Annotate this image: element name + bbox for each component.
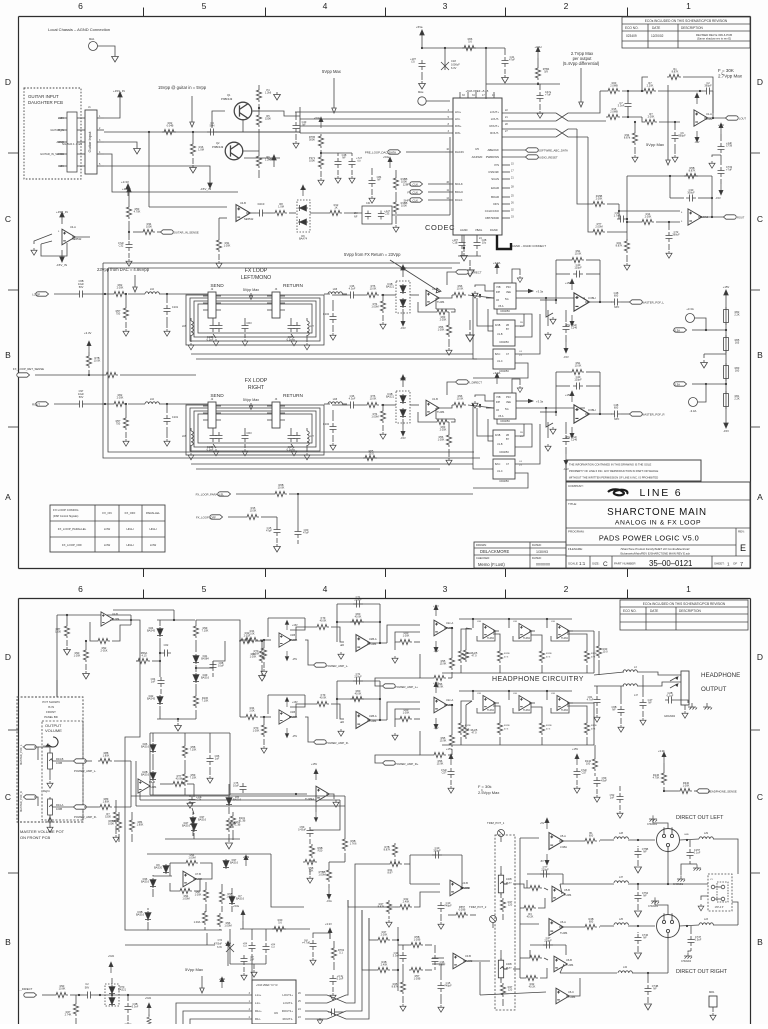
svg-text:U7-B: U7-B <box>195 872 201 876</box>
svg-text:+3.3a: +3.3a <box>536 400 544 404</box>
svg-text:C33: C33 <box>385 212 390 216</box>
svg-text:150K: 150K <box>265 117 271 121</box>
svg-text:+5V9: +5V9 <box>243 855 250 859</box>
svg-text:CD4053: CD4053 <box>499 479 509 483</box>
svg-text:1.00M: 1.00M <box>226 895 233 899</box>
svg-text:BY: BY <box>506 438 510 441</box>
svg-text:47pF: 47pF <box>266 529 272 533</box>
svg-text:2B: 2B <box>506 324 509 327</box>
svg-text:TL084: TL084 <box>437 410 445 414</box>
svg-text:8.87K: 8.87K <box>392 985 399 989</box>
svg-text:AGND – DGND CONNECT: AGND – DGND CONNECT <box>512 244 546 248</box>
svg-text:L10: L10 <box>150 288 155 291</box>
svg-text:Y0B: Y0B <box>496 396 501 399</box>
svg-text:+4.7uF: +4.7uF <box>302 941 311 945</box>
svg-text:PRE_LOOP_DAC_DATA: PRE_LOOP_DAC_DATA <box>365 151 396 155</box>
svg-text:+5VA: +5VA <box>108 954 114 958</box>
svg-text:40.0K: 40.0K <box>355 615 362 619</box>
svg-text:DIRECT OUT RIGHT: DIRECT OUT RIGHT <box>676 969 728 975</box>
svg-text:220uF: 220uF <box>354 675 362 679</box>
svg-text:7.10K: 7.10K <box>190 748 197 752</box>
svg-text:5/9: 5/9 <box>544 70 548 74</box>
svg-text:FX LOOP: FX LOOP <box>245 378 268 384</box>
svg-text:2: 2 <box>564 584 569 594</box>
svg-text:DESCRIPTION: DESCRIPTION <box>679 609 701 613</box>
svg-text:CHECKED:: CHECKED: <box>476 556 490 560</box>
svg-text:GUITAR INPUT: GUITAR INPUT <box>28 94 59 99</box>
svg-text:U5: U5 <box>475 147 479 151</box>
svg-text:LINE 6: LINE 6 <box>640 487 683 499</box>
svg-text:1.00M: 1.00M <box>371 305 378 309</box>
svg-text:HIGH: HIGH <box>150 527 157 531</box>
svg-text:0.5uF: 0.5uF <box>695 938 702 942</box>
svg-text:750: 750 <box>116 312 121 316</box>
svg-text:+3.3A: +3.3A <box>493 261 501 265</box>
svg-text:47uF: 47uF <box>509 58 515 62</box>
svg-text:FRONT: FRONT <box>46 710 56 714</box>
svg-text:C: C <box>757 792 763 802</box>
svg-text:C: C <box>5 792 11 802</box>
svg-text:1500: 1500 <box>55 630 61 634</box>
svg-text:15.9K: 15.9K <box>440 662 447 666</box>
svg-text:POWER_AMP_L-: POWER_AMP_L- <box>326 664 348 668</box>
svg-text:DGND: DGND <box>490 228 498 232</box>
svg-text:VEE: VEE <box>506 291 511 294</box>
svg-text:(1): (1) <box>243 944 246 948</box>
svg-text:+5Va: +5Va <box>314 116 320 120</box>
svg-text:U5-B: U5-B <box>564 888 570 892</box>
svg-text:CSN/I2F: CSN/I2F <box>488 170 499 174</box>
svg-text:47.0: 47.0 <box>471 731 477 735</box>
svg-text:2.2K: 2.2K <box>734 397 740 401</box>
svg-text:50V: 50V <box>79 395 84 399</box>
svg-text:1.00M: 1.00M <box>188 856 195 860</box>
svg-text:SIZE:: SIZE: <box>592 562 600 566</box>
svg-text:1.00K: 1.00K <box>438 438 445 442</box>
svg-text:HIGH: HIGH <box>127 543 134 547</box>
svg-text:R1n+: R1n+ <box>255 1009 262 1013</box>
svg-text:LOOP: LOOP <box>32 293 40 297</box>
svg-text:PANEL BD: PANEL BD <box>44 715 58 719</box>
svg-text:-15V: -15V <box>723 429 729 433</box>
svg-text:EOAR: EOAR <box>491 186 499 190</box>
svg-text:NF: NF <box>643 894 647 898</box>
svg-text:LOUT-: LOUT- <box>491 117 499 121</box>
svg-text:-15V: -15V <box>563 467 569 471</box>
svg-text:1000uF: 1000uF <box>451 63 460 67</box>
svg-text:L1B: L1B <box>333 398 338 401</box>
svg-text:U3-B: U3-B <box>462 881 468 885</box>
svg-text:10.5K: 10.5K <box>250 509 257 513</box>
svg-text:8.8?: 8.8? <box>387 871 393 875</box>
svg-text:+15V: +15V <box>292 701 298 704</box>
svg-text:40.0K: 40.0K <box>355 692 362 696</box>
svg-text:FX LOOP: FX LOOP <box>245 268 268 274</box>
svg-text:8.87K: 8.87K <box>616 244 623 248</box>
svg-text:HEADPHONE_SENSE: HEADPHONE_SENSE <box>708 790 737 794</box>
svg-text:6.3V: 6.3V <box>451 66 457 70</box>
svg-text:L34: L34 <box>623 966 628 969</box>
svg-text:+1.3B: +1.3B <box>234 823 241 827</box>
svg-text:-15V: -15V <box>400 436 406 440</box>
svg-text:(5.4Vpp differential): (5.4Vpp differential) <box>563 61 600 66</box>
svg-text:8.87K: 8.87K <box>384 848 391 852</box>
svg-text:740pF: 740pF <box>444 904 452 908</box>
svg-text:BAS16: BAS16 <box>236 897 245 901</box>
svg-text:PLT?: PLT? <box>506 967 512 970</box>
svg-text:1N?-4 P: 1N?-4 P <box>715 906 724 909</box>
svg-text:+3.3V: +3.3V <box>325 922 332 926</box>
svg-text:3.3nF: 3.3nF <box>439 963 446 967</box>
svg-text:C32: C32 <box>119 244 124 248</box>
svg-text:FS_CLK: FS_CLK <box>407 191 418 195</box>
svg-text:10.0: 10.0 <box>602 650 608 654</box>
svg-text:L25: L25 <box>619 918 624 921</box>
svg-text:LOUT+: LOUT+ <box>490 110 499 114</box>
svg-text:CCLK/CKO: CCLK/CKO <box>485 209 500 213</box>
svg-text:6.3V: 6.3V <box>217 946 222 949</box>
svg-text:23Vpp from DAC = 4.86Vpp: 23Vpp from DAC = 4.86Vpp <box>97 267 150 272</box>
svg-text:TRIM_POT_2: TRIM_POT_2 <box>469 905 487 909</box>
svg-text:100B: 100B <box>56 807 62 811</box>
svg-text:FX_LOOP_PARALLEL: FX_LOOP_PARALLEL <box>58 527 87 531</box>
svg-text:(DSP Control Signals): (DSP Control Signals) <box>53 514 78 518</box>
svg-text:TL084: TL084 <box>564 893 572 897</box>
svg-text:SHARCTONE MAIN: SHARCTONE MAIN <box>607 507 707 518</box>
svg-text:2B: 2B <box>506 434 509 437</box>
svg-text:50V: 50V <box>79 285 84 289</box>
svg-text:023409: 023409 <box>626 34 637 38</box>
svg-text:+15V: +15V <box>400 376 407 380</box>
svg-text:100: 100 <box>586 762 591 766</box>
svg-text:-15V: -15V <box>433 650 438 653</box>
svg-text:LOUT1-: LOUT1- <box>283 1001 293 1005</box>
svg-text:P/S: P/S <box>494 163 499 167</box>
svg-text:DESCRIPTION: DESCRIPTION <box>681 26 703 30</box>
svg-text:PS3: PS3 <box>506 286 511 289</box>
svg-text:-5V: -5V <box>540 860 544 863</box>
svg-text:CHGND1: CHGND1 <box>648 905 659 908</box>
svg-text:+3.3a: +3.3a <box>536 290 544 294</box>
svg-text:TL084: TL084 <box>560 931 568 935</box>
svg-text:2.74K: 2.74K <box>65 1013 72 1017</box>
svg-text:U4-B: U4-B <box>240 201 246 205</box>
svg-text:Q2: Q2 <box>216 141 220 145</box>
svg-text:1.80K: 1.80K <box>137 823 144 827</box>
svg-text:-15V_IN: -15V_IN <box>56 263 67 267</box>
svg-text:FX_ON: FX_ON <box>102 511 111 515</box>
svg-text:1.00K: 1.00K <box>74 654 81 658</box>
svg-text:2.00K: 2.00K <box>117 286 124 290</box>
svg-text:1:1: 1:1 <box>579 561 586 566</box>
svg-text:100B: 100B <box>506 963 512 966</box>
svg-text:40.2K: 40.2K <box>527 915 534 919</box>
svg-text:100B: 100B <box>56 761 62 765</box>
svg-text:LOW: LOW <box>104 543 111 547</box>
svg-text:1.7K6: 1.7K6 <box>350 842 357 846</box>
svg-text:4.15: 4.15 <box>141 654 147 658</box>
svg-text:-15V: -15V <box>292 735 297 738</box>
svg-text:C: C <box>603 561 608 568</box>
svg-text:OF: OF <box>733 562 737 566</box>
svg-text:RIN+: RIN+ <box>455 124 462 128</box>
svg-text:ECO NO.: ECO NO. <box>623 609 637 613</box>
svg-text:L1B: L1B <box>333 288 338 291</box>
svg-text:ROUT-: ROUT- <box>490 131 499 135</box>
svg-text:BAS21: BAS21 <box>386 285 395 289</box>
svg-text:160: 160 <box>735 369 740 373</box>
svg-text:POWER_AMP_L+: POWER_AMP_L+ <box>395 685 418 689</box>
svg-text:U2-B: U2-B <box>112 612 118 616</box>
svg-text:L1B: L1B <box>182 326 187 328</box>
svg-text:4.75K: 4.75K <box>653 776 660 780</box>
svg-text:+5VA: +5VA <box>145 996 151 1000</box>
svg-text:390pF: 390pF <box>704 84 712 88</box>
svg-text:D: D <box>5 652 11 662</box>
svg-text:C62: C62 <box>164 643 169 647</box>
svg-text:/Subassets/Main/REV E/SHARCTON: /Subassets/Main/REV E/SHARCTONE MAIN REV… <box>620 552 691 556</box>
svg-text:3: 3 <box>443 1 448 11</box>
svg-text:+5Va: +5Va <box>233 904 239 908</box>
svg-text:CHGND4: CHGND4 <box>681 960 692 963</box>
svg-text:C18: C18 <box>451 59 456 63</box>
svg-text:U5-A: U5-A <box>498 305 504 308</box>
svg-text:POT SHOWN: POT SHOWN <box>42 700 59 704</box>
svg-text:D4C0: D4C0 <box>258 202 265 206</box>
svg-text:TL084: TL084 <box>487 637 494 640</box>
svg-text:COMPANY:: COMPANY: <box>568 484 584 488</box>
svg-text:1.7nF: 1.7nF <box>614 214 621 218</box>
svg-text:ROUT: ROUT <box>32 403 40 407</box>
svg-text:10.0K: 10.0K <box>94 359 101 363</box>
svg-text:CBT/SW00: CBT/SW00 <box>485 216 499 220</box>
svg-text:1.00M: 1.00M <box>224 924 231 928</box>
svg-text:2N: 2N <box>354 211 357 215</box>
svg-text:2.00K: 2.00K <box>648 115 655 119</box>
svg-text:NF: NF <box>648 701 652 705</box>
svg-text:L29: L29 <box>704 832 709 835</box>
svg-text:1.00B: 1.00B <box>414 938 421 942</box>
svg-text:ROUT1-: ROUT1- <box>283 1017 293 1021</box>
svg-text:NF: NF <box>342 156 346 160</box>
svg-text:100K: 100K <box>401 204 407 208</box>
svg-text:0.43uF: 0.43uF <box>298 828 306 832</box>
svg-text:ROUT+: ROUT+ <box>489 124 499 128</box>
svg-text:+15V: +15V <box>311 762 317 766</box>
svg-text:B/1C: B/1C <box>495 353 501 356</box>
svg-text:220pF: 220pF <box>541 868 549 872</box>
svg-text:7.10K: 7.10K <box>202 699 209 703</box>
svg-text:SHEET:: SHEET: <box>714 562 725 566</box>
svg-text:1.00B: 1.00B <box>414 977 421 981</box>
svg-text:NF: NF <box>643 850 647 854</box>
svg-text:100K: 100K <box>146 225 152 229</box>
svg-text:SHFS_CLK: SHFS_CLK <box>404 199 419 203</box>
svg-text:-15V: -15V <box>433 727 438 730</box>
svg-text:0.04B: 0.04B <box>167 124 174 128</box>
svg-text:-15V: -15V <box>563 355 569 359</box>
svg-text:10.0K: 10.0K <box>457 287 464 291</box>
svg-text:5/A: 5/A <box>505 298 509 301</box>
svg-text:BAS20: BAS20 <box>154 866 163 870</box>
svg-text:E: E <box>740 543 746 553</box>
svg-text:+5VA VREF Y3 Y3: +5VA VREF Y3 Y3 <box>256 983 278 987</box>
svg-text:U1B: U1B <box>290 633 295 637</box>
svg-text:U1-B: U1-B <box>432 287 438 291</box>
svg-text:RIGHT: RIGHT <box>248 385 265 391</box>
svg-text:0.1uF: 0.1uF <box>694 851 701 855</box>
svg-text:NPO: NPO <box>614 418 619 421</box>
svg-text:1.0M: 1.0M <box>198 148 204 152</box>
svg-text:BAS21: BAS21 <box>386 395 395 399</box>
svg-text:R12B: R12B <box>546 725 552 727</box>
svg-text:U1-B: U1-B <box>497 333 503 336</box>
svg-text:U1-C: U1-C <box>497 360 503 363</box>
svg-text:LIN-: LIN- <box>455 117 460 121</box>
svg-text:3.08H: 3.08H <box>588 296 595 300</box>
svg-text:330pF: 330pF <box>433 849 441 853</box>
svg-text:+3.3V: +3.3V <box>121 180 129 184</box>
svg-text:6: 6 <box>78 1 83 11</box>
svg-text:WITHOUT THE WRITTEN PERMISSION: WITHOUT THE WRITTEN PERMISSION OF LINE 6… <box>569 476 658 480</box>
svg-text:(x): (x) <box>357 159 360 163</box>
svg-text:PLT?: PLT? <box>506 882 512 885</box>
svg-text:CD4053: CD4053 <box>500 309 510 313</box>
svg-text:LEFT/MONO: LEFT/MONO <box>241 275 271 281</box>
svg-text:1.00K: 1.00K <box>224 244 231 248</box>
svg-text:7.10K: 7.10K <box>202 629 209 633</box>
svg-text:500K: 500K <box>309 138 315 142</box>
svg-text:/SharcTone Product Family/SHET: /SharcTone Product Family/SHET 2/2 Combo… <box>620 547 689 551</box>
svg-text:-15V_IN: -15V_IN <box>200 187 211 191</box>
svg-text:RETURN: RETURN <box>283 283 304 289</box>
svg-text:10.0K: 10.0K <box>457 397 464 401</box>
svg-text:Memo (F.Lost): Memo (F.Lost) <box>478 562 505 567</box>
svg-text:1.00K: 1.00K <box>253 652 260 656</box>
svg-text:ROUT: ROUT <box>737 216 745 220</box>
svg-text:+3.3A: +3.3A <box>686 307 694 311</box>
svg-text:CHGND1: CHGND1 <box>647 823 658 826</box>
svg-text:BICLK: BICLK <box>455 190 463 194</box>
svg-text:DFS: DFS <box>493 202 499 206</box>
svg-text:ECOs INCLUDED ON THIS SCHEMATI: ECOs INCLUDED ON THIS SCHEMATIC/PCB REVI… <box>645 19 728 23</box>
svg-text:Guitar Input: Guitar Input <box>87 131 92 153</box>
svg-text:NF: NF <box>643 936 647 940</box>
svg-text:FX_LOOP_OFF: FX_LOOP_OFF <box>196 516 216 520</box>
svg-text:1.00K: 1.00K <box>195 893 202 897</box>
svg-text:TL084A: TL084A <box>305 797 314 801</box>
svg-text:3.3nF: 3.3nF <box>132 1005 139 1009</box>
svg-text:GUITAR_IN_SENSE: GUITAR_IN_SENSE <box>173 231 199 235</box>
svg-text:FX_LOOP_OFF: FX_LOOP_OFF <box>62 543 82 547</box>
svg-text:D/1B: D/1B <box>495 324 501 327</box>
svg-text:2: 2 <box>564 1 569 11</box>
svg-text:L28: L28 <box>619 832 624 835</box>
svg-text:BAS16: BAS16 <box>141 745 150 749</box>
svg-text:A: A <box>5 492 11 502</box>
svg-text:CD4053: CD4053 <box>499 340 509 344</box>
svg-text:ECOs INCLUDED ON THIS SCHEMATI: ECOs INCLUDED ON THIS SCHEMATIC/PCB REVI… <box>643 602 726 606</box>
svg-text:+15V_IN: +15V_IN <box>56 210 68 214</box>
svg-text:10.0K: 10.0K <box>278 486 285 490</box>
svg-text:2.05K: 2.05K <box>440 428 447 432</box>
svg-text:5.6: 5.6 <box>278 921 282 925</box>
svg-text:L_DIRECT: L_DIRECT <box>468 271 482 275</box>
svg-text:B4384: B4384 <box>201 657 209 661</box>
svg-text:U1B: U1B <box>290 710 295 714</box>
svg-text:MASTER_POF_R: MASTER_POF_R <box>642 413 665 417</box>
svg-text:4.3uF: 4.3uF <box>349 397 356 401</box>
svg-text:L1n-: L1n- <box>255 1001 261 1005</box>
svg-text:CODEC: CODEC <box>425 223 455 232</box>
svg-text:15.9K: 15.9K <box>437 762 444 766</box>
svg-text:2.00M: 2.00M <box>595 225 602 229</box>
svg-text:LOUT1+: LOUT1+ <box>282 993 293 997</box>
svg-text:RIN-: RIN- <box>455 131 461 135</box>
svg-text:5Vpp Max: 5Vpp Max <box>243 288 259 292</box>
svg-text:PROGRAM:: PROGRAM: <box>568 530 585 534</box>
svg-text:+15V: +15V <box>400 266 407 270</box>
svg-text:CR3: CR3 <box>246 431 252 435</box>
svg-text:1.80K: 1.80K <box>103 800 110 804</box>
svg-text:L1?: L1? <box>634 694 639 697</box>
svg-text:FX_LOOP_RET_SENSE: FX_LOOP_RET_SENSE <box>13 367 44 371</box>
svg-text:2.2uF: 2.2uF <box>337 977 344 981</box>
svg-text:HEADPHONE: HEADPHONE <box>701 672 740 679</box>
svg-text:MCLK: MCLK <box>455 182 463 186</box>
svg-text:C: C <box>757 214 763 224</box>
svg-text:35–00–0121: 35–00–0121 <box>649 559 692 568</box>
svg-text:10.8K: 10.8K <box>59 987 66 991</box>
svg-text:B: B <box>5 937 11 947</box>
svg-text:+3.3A: +3.3A <box>493 371 501 375</box>
svg-text:ANALOG IN & FX LOOP: ANALOG IN & FX LOOP <box>615 520 701 527</box>
svg-text:ON FRONT PCB: ON FRONT PCB <box>20 835 50 840</box>
svg-text:-15A: -15A <box>326 899 332 903</box>
svg-text:+15V: +15V <box>446 747 452 751</box>
svg-text:U2B-A: U2B-A <box>369 714 377 718</box>
svg-text:AK4520: AK4520 <box>472 155 483 159</box>
svg-text:BAS16: BAS16 <box>201 676 210 680</box>
svg-text:750: 750 <box>116 422 121 426</box>
svg-text:40.2K: 40.2K <box>529 985 536 989</box>
svg-text:6: 6 <box>78 584 83 594</box>
svg-text:ECO NO.: ECO NO. <box>625 26 639 30</box>
svg-text:FILENAME:: FILENAME: <box>568 547 583 551</box>
svg-text:CHGND1: CHGND1 <box>673 883 684 886</box>
svg-text:IS IN: IS IN <box>48 705 54 709</box>
svg-text:BAS45: BAS45 <box>147 697 156 701</box>
svg-text:MASTER_POF_L: MASTER_POF_L <box>642 301 665 305</box>
svg-text:NE5532: NE5532 <box>72 237 82 241</box>
svg-text:NPO: NPO <box>614 306 619 309</box>
svg-text:U2B-A: U2B-A <box>369 637 377 641</box>
svg-text:5: 5 <box>202 584 207 594</box>
svg-text:R12B: R12B <box>465 725 471 727</box>
svg-text:+15V: +15V <box>433 682 439 685</box>
svg-text:B: B <box>757 937 763 947</box>
svg-text:+5Va: +5Va <box>383 155 389 159</box>
svg-text:C146: C146 <box>571 438 578 442</box>
svg-text:5.6: 5.6 <box>468 40 472 44</box>
svg-text:+15V_IN: +15V_IN <box>113 89 125 93</box>
svg-text:HEADPHONE CIRCUITRY: HEADPHONE CIRCUITRY <box>492 676 584 683</box>
svg-text:2.0MB: 2.0MB <box>610 84 618 88</box>
svg-text:1uF: 1uF <box>215 757 220 761</box>
svg-text:-15V: -15V <box>292 658 297 661</box>
svg-text:600: 600 <box>614 406 619 410</box>
svg-text:+7uF: +7uF <box>545 93 551 97</box>
